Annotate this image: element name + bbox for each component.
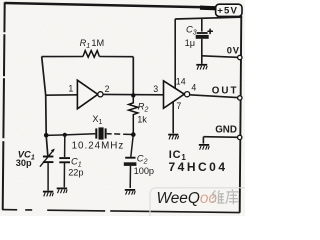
svg-text:1k: 1k (137, 114, 147, 124)
resistor R2 (129, 95, 138, 134)
terminal +5V box (216, 4, 242, 16)
svg-text:22p: 22p (68, 168, 83, 178)
node crystal/R2/C2 junction (131, 132, 136, 137)
node 0V terminal (238, 55, 242, 59)
wire R1 top left (42, 56, 84, 58)
op-amp U1A inverter triangle (77, 80, 97, 109)
svg-text:GND: GND (215, 124, 237, 135)
node OUT terminal (238, 96, 242, 100)
svg-text:3: 3 (153, 84, 158, 94)
bubble U1A output (98, 92, 103, 97)
wire VC1 bottom lead (47, 162, 49, 191)
border frame top (5, 3, 216, 8)
ground C3 (196, 65, 207, 70)
wire C3 bottom lead (201, 39, 203, 64)
wire C1 bottom lead (63, 162, 65, 187)
wire C2 top lead (131, 135, 134, 157)
ground pin7 (168, 135, 178, 140)
resistor R1 (83, 51, 99, 58)
wire GND drop (202, 137, 204, 144)
ground C2 (125, 190, 135, 195)
variable capacitor VC1 (40, 149, 55, 167)
svg-text:10.24MHz: 10.24MHz (72, 140, 125, 151)
capacitor C2 (124, 158, 137, 166)
svg-text:WeeQoo: WeeQoo (157, 190, 218, 207)
node crystal/left rail junction (44, 133, 49, 138)
ground VC1 (43, 192, 53, 197)
svg-text:4: 4 (191, 83, 196, 93)
wire crystal right (107, 133, 134, 136)
wire pin14 drop (174, 19, 176, 89)
border frame bottom (2, 210, 240, 213)
wire inverter1 output to inverter2 input (103, 93, 164, 95)
wire C2 bottom lead (129, 166, 131, 188)
crystal X1 (96, 127, 105, 139)
wire OUT (190, 95, 240, 98)
svg-text:14: 14 (176, 77, 186, 87)
svg-text:0V: 0V (227, 44, 240, 55)
watermark box (150, 188, 258, 228)
border frame thick stub near +5V box (200, 5, 217, 10)
svg-text:7: 7 (176, 101, 181, 111)
ground C1 (57, 188, 67, 193)
capacitor C1 (59, 158, 70, 162)
ground GND terminal (199, 145, 209, 150)
node junction R1/R2/output (131, 93, 135, 97)
watermark hanzi ku (226, 189, 239, 204)
svg-text:+5V: +5V (217, 6, 238, 17)
border frame right (240, 16, 242, 213)
border frame left (3, 2, 5, 210)
wire inverter1 input (46, 94, 78, 96)
watermark hanzi wei (212, 191, 225, 204)
wire R1 feedback drop (132, 57, 134, 96)
wire R1 top right (99, 56, 133, 58)
wire 0V (202, 56, 240, 58)
node GND terminal (238, 135, 242, 139)
wire C1 top lead (64, 135, 66, 157)
svg-text:2: 2 (105, 84, 110, 94)
wire VCC rail (175, 17, 240, 19)
svg-text:1M: 1M (91, 38, 104, 48)
wire C3 top lead (201, 19, 203, 32)
svg-text:74HC04: 74HC04 (169, 160, 228, 174)
op-amp U1B inverter triangle (164, 81, 185, 109)
wire pin7 drop (172, 102, 174, 134)
bubble U1B output (185, 92, 190, 97)
svg-text:1: 1 (68, 84, 73, 94)
svg-text:100p: 100p (134, 166, 154, 176)
svg-text:30p: 30p (16, 158, 32, 168)
svg-text:OUT: OUT (212, 85, 239, 96)
capacitor C3 (196, 29, 213, 39)
node C1 junction (63, 133, 67, 137)
node R1 left corner / left rail (42, 57, 48, 156)
wire GND (203, 136, 239, 139)
wire crystal left (46, 134, 95, 136)
svg-text:1μ: 1μ (185, 38, 195, 48)
